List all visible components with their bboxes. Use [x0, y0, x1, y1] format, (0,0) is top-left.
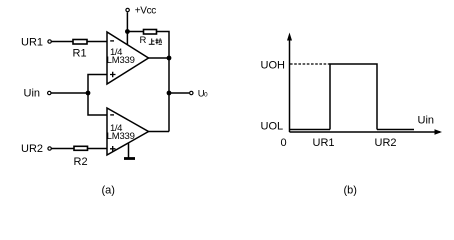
svg-text:(b): (b): [344, 185, 357, 197]
svg-text:+Vcc: +Vcc: [135, 6, 157, 17]
waveform pulse: [330, 64, 377, 130]
wire R1 to inverting input of U1: [87, 41, 107, 43]
junction Uin node: [86, 91, 91, 96]
op-amp U2 (1/4 LM339 bottom comparator): [107, 108, 149, 155]
x-axis: [290, 129, 443, 135]
wire resistor R to output rail: [157, 32, 170, 59]
junction U1 output node: [167, 56, 172, 61]
label R 上拉: [140, 35, 162, 46]
op-amp U1 (1/4 LM339 top comparator): [107, 32, 149, 84]
terminal +Vcc: [126, 6, 156, 17]
svg-text:UR1: UR1: [313, 137, 335, 149]
svg-text:UR2: UR2: [375, 137, 397, 149]
dashed line UOH level: [290, 63, 330, 65]
svg-text:(a): (a): [102, 185, 115, 197]
waveform low segment left: [290, 129, 330, 131]
wire U2 output to rail: [149, 131, 170, 133]
wire Vcc junction to resistor R: [127, 31, 143, 33]
wire R2 to non-inverting input of U2: [88, 148, 108, 150]
svg-text:LM339: LM339: [107, 55, 135, 66]
svg-text:0: 0: [281, 137, 287, 149]
wire Vcc vertical to comparator V+: [126, 12, 128, 45]
terminal UR2: [21, 143, 51, 155]
wire to Uo terminal: [169, 92, 189, 94]
svg-text:UR1: UR1: [21, 37, 43, 49]
junction Vcc node: [125, 29, 130, 34]
wire U1 output to rail: [149, 57, 170, 59]
svg-text:R2: R2: [74, 156, 88, 168]
wire UR1 to R1: [52, 41, 74, 43]
wire UR2 to R2: [52, 148, 75, 150]
resistor R1: [73, 40, 87, 45]
y-axis: [287, 33, 292, 133]
waveform low segment right: [377, 129, 414, 131]
svg-text:R: R: [140, 35, 147, 46]
svg-text:LM339: LM339: [107, 131, 135, 142]
terminal Uin: [24, 88, 52, 100]
junction Uo node: [167, 91, 172, 96]
wire Uin junction to non-inverting input of U1: [88, 75, 107, 94]
svg-text:0: 0: [204, 92, 208, 99]
resistor R2: [74, 146, 88, 150]
terminal Uo: [190, 88, 208, 99]
ground: [124, 143, 135, 159]
wire Uin junction to inverting input of U2: [88, 93, 107, 115]
terminal UR1: [21, 37, 51, 49]
svg-text:Uin: Uin: [24, 88, 41, 100]
svg-text:UOL: UOL: [261, 121, 284, 133]
svg-text:R1: R1: [73, 48, 87, 60]
wire Uin to junction: [51, 92, 88, 94]
wire output rail vertical: [168, 58, 170, 132]
svg-text:Uin: Uin: [418, 115, 435, 127]
svg-text:UR2: UR2: [21, 143, 43, 155]
resistor R (pull-up): [144, 30, 157, 35]
svg-text:UOH: UOH: [261, 60, 286, 72]
